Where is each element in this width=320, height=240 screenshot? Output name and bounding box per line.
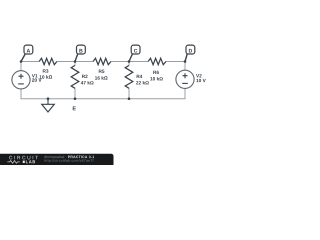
resistor R6 xyxy=(148,58,166,80)
wire V2 bottom stub xyxy=(184,88,186,99)
label R6 xyxy=(153,71,159,74)
value 16 kOhm xyxy=(95,76,108,79)
wire top R3 to R5 xyxy=(57,61,93,63)
value 20 V xyxy=(32,78,42,81)
ground xyxy=(42,97,55,112)
voltage source V1 xyxy=(12,71,42,89)
wire top R5 to R6 xyxy=(111,61,148,63)
resistor R2 xyxy=(71,65,93,88)
wire R2 top stub xyxy=(74,62,76,66)
label R2 xyxy=(82,75,88,78)
value 47 kOhm xyxy=(81,81,94,84)
label R3 xyxy=(43,69,49,72)
node B xyxy=(75,45,85,61)
label R4 xyxy=(137,75,143,78)
wire top node A to R3 xyxy=(21,61,39,63)
wire V2 top stub xyxy=(184,62,186,71)
wire bottom net E xyxy=(21,98,185,100)
node C xyxy=(129,45,140,61)
value 10 kOhm xyxy=(150,77,163,80)
value 22 kOhm xyxy=(136,81,149,84)
node E label xyxy=(73,107,76,111)
value 10 kOhm xyxy=(40,75,53,78)
label V2 xyxy=(196,74,202,77)
watermark bar xyxy=(0,154,114,165)
junction node C xyxy=(128,60,131,63)
junction node D xyxy=(184,60,187,63)
wire V1 bottom stub xyxy=(20,89,22,99)
value 10 V xyxy=(196,79,205,82)
wire R4 bottom stub xyxy=(128,88,130,99)
junction node B xyxy=(74,60,77,63)
node A xyxy=(21,45,33,61)
junction R4 bottom xyxy=(128,97,131,100)
wire R4 top stub xyxy=(128,62,130,66)
wire top R6 to node D xyxy=(166,61,185,63)
wire V1 top stub xyxy=(20,62,22,71)
junction node A xyxy=(20,60,23,63)
resistor R5 xyxy=(93,58,111,79)
voltage source V2 xyxy=(176,70,206,88)
junction R2 bottom xyxy=(74,97,77,100)
resistor R4 xyxy=(125,65,149,88)
label V1 xyxy=(32,74,38,77)
label R5 xyxy=(99,70,105,73)
wire R2 bottom stub xyxy=(74,88,76,99)
node D xyxy=(185,45,195,61)
resistor R3 xyxy=(39,58,57,78)
